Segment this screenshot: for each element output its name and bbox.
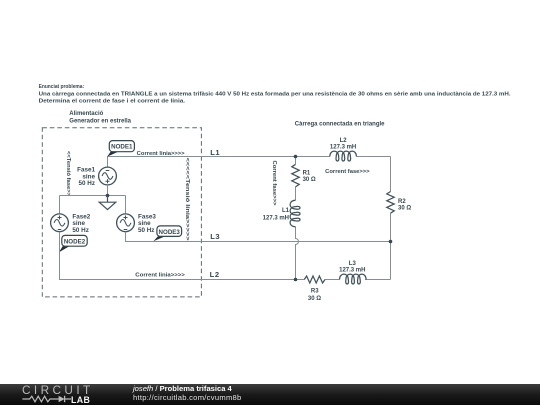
CircuitLab logo wordmark — [22, 385, 92, 395]
current label Corrent linia on L2 — [135, 273, 185, 279]
node flag NODE2 — [59, 235, 87, 252]
generator dashed box — [42, 128, 201, 297]
svg-text:Generador en estrella: Generador en estrella — [69, 119, 131, 125]
svg-text:50 Hz: 50 Hz — [79, 180, 95, 187]
svg-text:Enunciat problema:: Enunciat problema: — [39, 84, 85, 90]
svg-text:Càrrega connectada en triangle: Càrrega connectada en triangle — [295, 121, 385, 127]
svg-text:30 Ω: 30 Ω — [398, 206, 411, 212]
svg-text:Corrent fase>>>: Corrent fase>>> — [325, 169, 369, 175]
current label Corrent fase (rotated, R1 branch) — [271, 161, 277, 206]
svg-text:30 Ω: 30 Ω — [303, 177, 316, 183]
svg-text:R1: R1 — [303, 171, 311, 177]
label R1 30 Ohm — [303, 171, 316, 184]
junction neutral node — [106, 194, 110, 198]
CircuitLab logo resistor-diode glyph — [22, 394, 74, 404]
inductor L1 — [290, 200, 300, 227]
svg-text:L2: L2 — [210, 270, 220, 279]
footer bar — [0, 384, 540, 405]
wire L2 (Fase2 bottom to load, bottom rail) — [60, 232, 391, 280]
svg-text:30 Ω: 30 Ω — [308, 296, 321, 302]
inductor L2 — [330, 151, 357, 161]
wire R2 branch vertical right rail — [390, 157, 392, 280]
svg-text:Alimentació: Alimentació — [69, 111, 103, 117]
svg-text:L3: L3 — [349, 261, 357, 267]
svg-text:R2: R2 — [398, 199, 406, 205]
voltage label Tensio fase (rotated) — [65, 151, 71, 196]
resistor R3 — [304, 276, 325, 283]
label Alimentació / Generador en estrella — [69, 111, 131, 125]
enunciat text line 3 — [39, 99, 186, 105]
wire R1 branch vertical with hop over L3 — [296, 157, 299, 280]
svg-text:127.3 mH: 127.3 mH — [330, 144, 356, 150]
node label L1 — [210, 148, 220, 157]
label Càrrega connectada en triangle — [295, 121, 385, 127]
wire neutral (Fase1 bottom to Fase2/Fase3 tops) — [60, 185, 126, 214]
wire L3 (Fase3 bottom to load, middle rail) — [126, 232, 391, 242]
svg-text:Corrent linia>>>>: Corrent linia>>>> — [137, 151, 185, 157]
node label L3 — [210, 232, 220, 241]
svg-text:127.3 mH: 127.3 mH — [263, 216, 289, 222]
svg-text:L1: L1 — [282, 208, 290, 214]
node flag NODE3 — [153, 226, 181, 241]
voltage source Fase2 — [51, 214, 69, 232]
resistor R2 — [387, 192, 394, 214]
svg-text:<<Tensió fase>>: <<Tensió fase>> — [65, 151, 71, 196]
svg-text:L3: L3 — [210, 232, 220, 241]
svg-text:Una càrrega connectada en TRIA: Una càrrega connectada en TRIANGLE a un … — [39, 91, 511, 97]
svg-text:127.3 mH: 127.3 mH — [339, 267, 365, 273]
svg-text:Corrent linia>>>>: Corrent linia>>>> — [135, 273, 185, 279]
svg-text:Corrent fase>>>: Corrent fase>>> — [271, 161, 277, 206]
svg-text:L1: L1 — [210, 148, 220, 157]
current label Corrent linia on L1 — [137, 151, 185, 157]
current label Corrent fase (under L2) — [325, 169, 369, 175]
svg-text:Determina el corrent de fase i: Determina el corrent de fase i el corren… — [39, 99, 186, 105]
svg-text:<<<<<Tensió línia>>>>>: <<<<<Tensió línia>>>>> — [184, 158, 190, 241]
svg-text:NODE3: NODE3 — [159, 229, 181, 236]
svg-text:L2: L2 — [340, 138, 348, 144]
node label L2 — [210, 270, 220, 279]
enunciat text line 2 — [39, 91, 511, 97]
svg-text:50 Hz: 50 Hz — [138, 227, 154, 234]
wire L1 (Fase1 top to load, top rail) — [108, 157, 391, 168]
resistor R1 — [292, 164, 299, 187]
svg-text:50 Hz: 50 Hz — [72, 227, 88, 234]
label Fase1 sine 50 Hz — [77, 167, 95, 187]
junction node L1/R1 — [294, 155, 298, 159]
svg-text:NODE1: NODE1 — [111, 144, 133, 151]
label R3 30 Ohm — [308, 289, 321, 302]
enunciat text line 1 — [39, 84, 85, 90]
label L2 127.3 mH — [330, 138, 356, 150]
label Fase3 sine 50 Hz — [138, 213, 156, 233]
junction node L2/R1 branch — [294, 278, 298, 282]
voltage source Fase3 — [117, 214, 135, 232]
svg-text:R3: R3 — [311, 289, 319, 295]
inductor L3 — [340, 274, 367, 284]
junction node L3/right rail — [389, 240, 393, 244]
label R2 30 Ohm — [398, 199, 411, 212]
label L3 127.3 mH — [339, 261, 365, 274]
svg-text:NODE2: NODE2 — [64, 238, 86, 245]
voltage source Fase1 — [99, 167, 117, 185]
node flag NODE1 — [107, 141, 134, 157]
label Fase2 sine 50 Hz — [72, 213, 90, 233]
voltage label Tensio linia (rotated) — [184, 158, 190, 241]
label L1 127.3 mH — [263, 208, 290, 221]
ground — [99, 196, 116, 210]
